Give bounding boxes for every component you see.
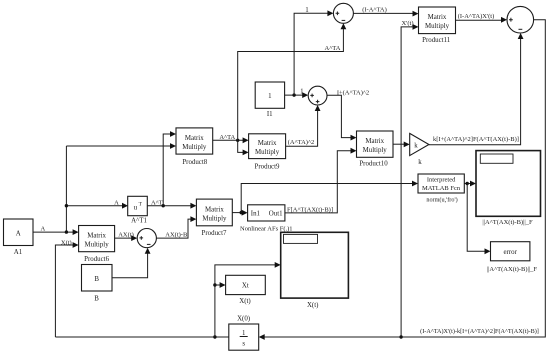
sum S2 (I+(A^TA)^2) — [308, 86, 327, 105]
wire integrator output X(t) to left — [55, 336, 228, 338]
node A^T branch up to Product8 in1 — [162, 204, 165, 207]
sum S1 (I-A^TA) — [333, 3, 353, 23]
svg-text:Matrix: Matrix — [87, 232, 106, 239]
wire I branch up to sum S1 — [294, 13, 330, 95]
svg-text:Product11: Product11 — [422, 37, 451, 44]
svg-text:Matrix: Matrix — [258, 140, 277, 147]
svg-text:k: k — [418, 159, 422, 166]
wire sum S3 output feedback to integrator — [262, 20, 546, 337]
svg-text:1: 1 — [242, 330, 246, 337]
block Product8 matrix multiply — [176, 128, 213, 166]
wire A to Product8 in2 — [66, 145, 173, 147]
block Product6 matrix multiply — [79, 226, 115, 263]
svg-text:norm(u,'fro'): norm(u,'fro') — [426, 196, 457, 203]
svg-text:X(0): X(0) — [237, 315, 250, 322]
wire AX(t)-B to Product7 in2 — [156, 219, 193, 238]
svg-text:In1: In1 — [251, 211, 261, 218]
svg-text:MATLAB Fcn: MATLAB Fcn — [422, 185, 461, 192]
svg-text:u: u — [134, 204, 138, 211]
wire X(t) feedback to Product6 in2 — [55, 245, 75, 337]
wire (I-A^TA)X'(t) Product11 to sum S3 — [456, 19, 505, 21]
svg-text:AX(t): AX(t) — [118, 231, 134, 238]
block Product11 matrix multiply — [419, 7, 456, 44]
svg-text:Multiply: Multiply — [363, 147, 388, 154]
svg-text:X(t): X(t) — [307, 302, 318, 309]
wire (A^TA)^2 Product9 to sum S2 bottom — [286, 108, 318, 146]
block Xt display — [226, 275, 266, 305]
wire I+(A^TA)^2 to Product10 in1 — [327, 95, 354, 137]
block Product7 matrix multiply — [196, 199, 232, 237]
svg-text:Multiply: Multiply — [425, 23, 450, 30]
wire Product7 out to In1 — [232, 212, 244, 214]
wire B to sum S4 bottom — [112, 251, 148, 278]
svg-text:B: B — [94, 276, 99, 283]
wire A^T to Product7 in1 — [147, 205, 193, 207]
svg-text:A^T: A^T — [151, 199, 163, 206]
wire A^TA Product8 to Product9 — [213, 139, 246, 141]
node norm output junction — [466, 182, 469, 185]
svg-text:A^TA: A^TA — [219, 134, 235, 141]
block Interpreted MATLAB Fcn — [418, 174, 464, 203]
svg-text:I1: I1 — [267, 111, 273, 118]
node Product7 output junction — [240, 211, 243, 214]
svg-text:s: s — [242, 341, 245, 348]
svg-text:k[I+(A^TA)^2]F(A^T(AX(t)-B)]: k[I+(A^TA)^2]F(A^T(AX(t)-B)] — [433, 136, 519, 143]
svg-text:AX(t)-B: AX(t)-B — [165, 232, 188, 239]
sum S4 (AX(t)-B) — [137, 229, 156, 248]
svg-text:Interpreted: Interpreted — [427, 177, 456, 184]
svg-text:1: 1 — [268, 93, 272, 100]
wire X(t) to Xt display — [215, 284, 223, 286]
wire A^TA branch up to sum S1 — [238, 26, 344, 140]
node A^TA junction — [236, 139, 239, 142]
node X(t) to Xt display junction — [213, 283, 216, 286]
wire X(t) up to scope — [215, 265, 278, 337]
svg-text:X(t): X(t) — [61, 239, 72, 246]
wire Product10 to gain k — [393, 143, 407, 145]
svg-text:Matrix: Matrix — [428, 14, 447, 21]
node X(t) branch junction — [213, 335, 216, 338]
svg-text:1: 1 — [300, 89, 304, 96]
wire F[A^T(AX(t)-B)] Out1 to Product10 in2 — [285, 151, 354, 213]
sum S3 (output sum) — [507, 6, 534, 33]
wire I to sum S2 — [285, 94, 306, 96]
svg-text:k: k — [414, 142, 418, 149]
svg-text:Out1: Out1 — [269, 211, 283, 218]
block error display — [487, 242, 538, 273]
gain k triangle — [410, 133, 429, 166]
svg-text:Xt: Xt — [242, 283, 249, 290]
svg-text:A^T1: A^T1 — [131, 217, 147, 224]
node A to uT branch — [66, 205, 125, 207]
svg-text:B: B — [94, 296, 99, 303]
block Product9 matrix multiply — [249, 134, 286, 171]
wire A^TA branch down to Product9 in2 — [238, 140, 246, 152]
svg-text:A: A — [114, 199, 119, 206]
node X'(t) tap junction — [399, 335, 402, 338]
display |A^T(AX(t)-B)|_F — [476, 151, 541, 227]
svg-text:A: A — [40, 225, 45, 232]
svg-text:||A^T(AX(t)-B)||_F: ||A^T(AX(t)-B)||_F — [487, 266, 538, 273]
svg-text:Product6: Product6 — [84, 256, 109, 263]
integrator 1/s — [229, 315, 259, 350]
svg-text:A^TA: A^TA — [325, 45, 341, 52]
wire norm branch down to error — [467, 184, 487, 252]
wire gain k output to sum S3 bottom (minus) — [429, 36, 521, 145]
svg-text:||A^T(AX(t)-B)||_F: ||A^T(AX(t)-B)||_F — [482, 219, 533, 226]
block Product10 matrix multiply — [357, 131, 394, 168]
svg-text:F[A^T(AX(t)-B)]: F[A^T(AX(t)-B)] — [287, 206, 333, 213]
scope X(t) display — [281, 232, 349, 309]
block B (constant) — [82, 265, 113, 303]
svg-text:X'(t): X'(t) — [401, 20, 413, 27]
svg-text:(I-A^TA)X'(t): (I-A^TA)X'(t) — [458, 13, 495, 20]
block I1 (identity constant) — [255, 82, 284, 118]
block In1/Out1 (Nonlinear AFs F(.)1) — [240, 205, 293, 233]
svg-text:Product8: Product8 — [182, 159, 207, 166]
svg-text:Product7: Product7 — [202, 230, 227, 237]
block A1 (constant A) — [4, 219, 34, 256]
wire AX(t) Product6 to sum S4 — [115, 237, 135, 239]
svg-text:(A^TA)^2: (A^TA)^2 — [288, 139, 315, 146]
svg-text:I+(A^TA)^2: I+(A^TA)^2 — [337, 89, 369, 96]
svg-text:Multiply: Multiply — [85, 241, 110, 248]
svg-text:(I-A^TA)X'(t)-k[I+(A^TA)^2]F(A: (I-A^TA)X'(t)-k[I+(A^TA)^2]F(A^T(AX(t)-B… — [420, 328, 539, 335]
svg-text:Multiply: Multiply — [255, 149, 280, 156]
svg-text:Product10: Product10 — [359, 161, 388, 168]
svg-text:Matrix: Matrix — [185, 135, 204, 142]
svg-text:Multiply: Multiply — [202, 215, 227, 222]
node I junction — [292, 93, 295, 96]
svg-text:X(t): X(t) — [239, 298, 250, 305]
svg-text:A: A — [16, 231, 21, 238]
svg-text:Matrix: Matrix — [365, 138, 384, 145]
node A branch vertical — [65, 146, 67, 232]
svg-text:error: error — [504, 249, 518, 256]
transpose block A^T1 — [128, 196, 148, 224]
wire X'(t) feedback up to Product11 in2 — [401, 27, 415, 337]
wire norm output to display — [464, 183, 473, 185]
wire (I-A^TA) to Product11 in1 — [353, 12, 415, 14]
svg-text:(I-A^TA): (I-A^TA) — [362, 6, 387, 13]
wire A^T(AX(t)-B) up to Interpreted MATLAB Fcn — [241, 184, 415, 213]
svg-text:A1: A1 — [14, 249, 23, 256]
svg-text:Product9: Product9 — [255, 164, 280, 171]
svg-text:1: 1 — [305, 7, 309, 14]
wire A output to Product6 in1 — [33, 231, 76, 233]
svg-text:Multiply: Multiply — [182, 144, 207, 151]
svg-text:Matrix: Matrix — [205, 206, 224, 213]
